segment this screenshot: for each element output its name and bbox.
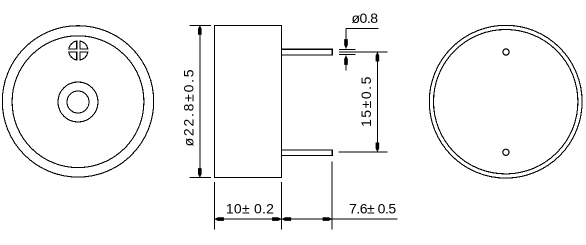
dim phi22.8 top extension line: [190, 24, 211, 26]
svg-text:10± 0.2: 10± 0.2: [226, 200, 274, 216]
dim 15 dimension line: [376, 52, 378, 152]
bottom extension line 2: [281, 182, 283, 230]
arrow 7.6 left: [282, 217, 292, 221]
phi0.8 leader vertical: [345, 29, 347, 49]
front view inner rim circle: [12, 36, 144, 168]
arrow phi22.8 up: [198, 25, 202, 35]
top pin: [282, 49, 333, 55]
arrow 15 down: [376, 143, 380, 153]
arrow phi0.8 down: [344, 39, 348, 49]
arrow 10 left: [214, 217, 224, 221]
bottom extension line 3: [331, 162, 333, 230]
bottom extension line 1: [213, 182, 215, 230]
bottom dimension line: [214, 218, 397, 220]
svg-text:15±0.5: 15±0.5: [358, 76, 374, 127]
center hole: [67, 91, 89, 113]
svg-text:ø0.8: ø0.8: [352, 10, 379, 26]
side view body: [215, 25, 282, 177]
svg-text:ø22.8±0.5: ø22.8±0.5: [181, 69, 197, 146]
phi0.8 lower arrow tail: [345, 55, 347, 70]
dim phi22.8 bottom extension line: [190, 177, 212, 179]
pin dia top tick: [339, 48, 356, 50]
arrow phi0.8 up: [344, 55, 348, 65]
sound hole cross symbol: [69, 41, 88, 60]
back view outer circle: [429, 25, 582, 178]
arrow 15 up: [376, 52, 380, 62]
dim phi22.8 dimension line: [199, 25, 201, 177]
back view top hole: [503, 49, 509, 55]
arrow 10 right: [272, 217, 282, 221]
dim 15 bottom extension line: [338, 151, 387, 153]
back view inner circle: [434, 30, 578, 174]
center ring outer: [58, 82, 98, 122]
arrow phi22.8 down: [198, 168, 202, 178]
front view outer circle: [2, 26, 153, 177]
dim 15 top extension line: [339, 51, 388, 53]
svg-text:7.6± 0.5: 7.6± 0.5: [349, 201, 396, 217]
arrow 7.6 right: [323, 217, 333, 221]
phi0.8 leader horizontal: [346, 28, 379, 30]
bottom pin: [282, 150, 333, 155]
pin dia bottom tick: [339, 54, 356, 56]
back view bottom hole: [503, 149, 509, 155]
